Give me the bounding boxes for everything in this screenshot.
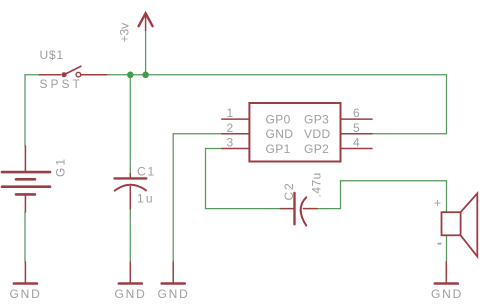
pin 3 (222, 148, 250, 150)
svg-text:C2: C2 (282, 182, 296, 201)
wire C2 to speaker (317, 181, 447, 212)
svg-text:GND: GND (10, 287, 42, 301)
battery G1 (2, 146, 50, 212)
wire left horizontal to switch (25, 74, 39, 76)
svg-text:U$1: U$1 (40, 48, 64, 62)
wire speaker to gnd (446, 236, 448, 263)
svg-text:GP2: GP2 (304, 142, 329, 156)
ground pin2 net (162, 262, 185, 284)
svg-text:3: 3 (227, 136, 234, 150)
svg-text:GP0: GP0 (266, 113, 291, 127)
pin 5 (341, 133, 373, 135)
svg-text:1: 1 (227, 106, 234, 120)
pin 2 (222, 133, 250, 135)
speaker SP1 (442, 193, 478, 256)
wire top horizontal (107, 74, 447, 76)
wire pin2 to gnd (173, 134, 222, 262)
svg-text:1u: 1u (137, 192, 155, 206)
capacitor C1 (115, 174, 147, 210)
ground under battery (14, 262, 37, 284)
wire +3v stem green (145, 31, 147, 75)
svg-text:+: + (434, 196, 441, 210)
svg-text:GP1: GP1 (266, 142, 291, 156)
IC U2 box (249, 103, 340, 162)
wire pin5 horizontal (372, 133, 447, 135)
wire battery bottom to gnd (24, 212, 26, 262)
wire down to C1 (129, 75, 131, 174)
wire right vertical to pin5 (446, 75, 448, 134)
svg-text:+3v: +3v (118, 23, 132, 43)
svg-text:GND: GND (158, 287, 190, 301)
svg-text:C1: C1 (137, 165, 156, 179)
svg-text:6: 6 (353, 106, 360, 120)
pin 6 (341, 118, 373, 120)
svg-text:GND: GND (266, 127, 294, 141)
svg-text:VDD: VDD (304, 127, 331, 141)
pin 4 (341, 148, 373, 150)
svg-text:2: 2 (227, 121, 234, 135)
svg-text:SPST: SPST (40, 77, 83, 91)
junction dot at C1 column (127, 72, 134, 79)
svg-text:GND: GND (115, 287, 147, 301)
wire C1 bottom to gnd (129, 209, 131, 262)
capacitor C2 (280, 193, 317, 226)
svg-text:GP3: GP3 (304, 113, 329, 127)
svg-text:4: 4 (353, 136, 360, 150)
svg-text:GND: GND (431, 287, 463, 301)
wire pin3 to C2 (206, 149, 281, 209)
ground under C1 (119, 262, 142, 284)
svg-text:.47u: .47u (310, 172, 324, 197)
wire battery top vertical (24, 75, 26, 146)
junction dot at +3v column (142, 72, 149, 79)
speaker minus label (438, 243, 442, 245)
svg-text:5: 5 (353, 121, 360, 135)
svg-text:G1: G1 (54, 157, 68, 177)
switch U$1 (39, 66, 106, 77)
pin 1 (222, 118, 250, 120)
supply +3v (139, 13, 153, 30)
ground under speaker (435, 262, 458, 284)
